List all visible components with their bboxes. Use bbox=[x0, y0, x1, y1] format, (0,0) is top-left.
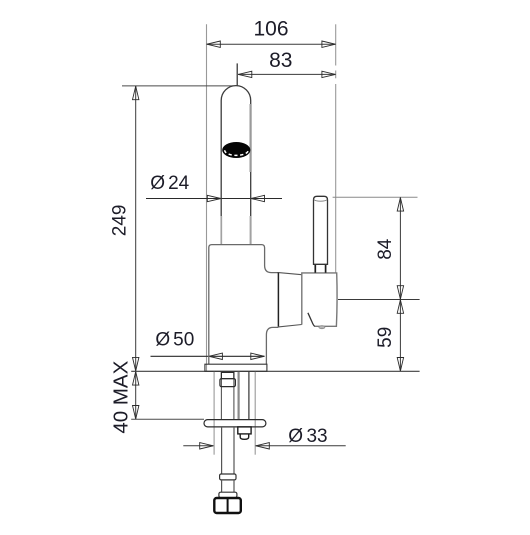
dim line O24 bbox=[146, 198, 282, 200]
arrow O24 left bbox=[207, 195, 221, 201]
arrow 84 bottom bbox=[397, 286, 403, 300]
svg-text:249: 249 bbox=[110, 205, 131, 237]
arrow 40MAX top (below deck, pointing up) bbox=[133, 372, 139, 386]
arrow O24 right bbox=[251, 195, 265, 201]
svg-text:40 MAX: 40 MAX bbox=[109, 360, 132, 433]
ext line cartridge centre (84/59 ref) bbox=[338, 299, 420, 301]
spout right edge shading bbox=[250, 104, 252, 172]
arrow O50 left bbox=[209, 353, 223, 359]
handle rod bbox=[314, 196, 328, 264]
arrow 59 top bbox=[397, 300, 403, 314]
svg-text:Ø50: Ø50 bbox=[155, 330, 194, 351]
extension line right (handle right edge) bbox=[335, 24, 337, 65]
spout lower edges shading bbox=[220, 216, 222, 244]
body main block bbox=[209, 245, 279, 365]
hose end ring bbox=[219, 492, 237, 498]
hose collar bbox=[220, 474, 236, 480]
handle rod cap line bbox=[314, 200, 327, 202]
spout tube outline bbox=[221, 86, 251, 245]
arrow 40MAX bottom (pointing down) bbox=[133, 406, 139, 420]
arrow 249 top bbox=[133, 86, 139, 100]
arrow 106 left bbox=[207, 41, 221, 47]
label 40 MAX bbox=[109, 360, 132, 433]
dim line 106 bbox=[207, 43, 336, 45]
svg-text:106: 106 bbox=[253, 17, 288, 40]
hose fitting nut bbox=[220, 379, 236, 387]
hose fitting block bbox=[221, 372, 234, 378]
extension line left (base plate left edge) bbox=[206, 24, 208, 371]
hose hex nut bbox=[214, 498, 241, 513]
svg-text:84: 84 bbox=[375, 238, 396, 260]
arrow O33 right bbox=[256, 443, 269, 449]
label 249 bbox=[110, 205, 131, 237]
dim line 84/59 vertical bbox=[399, 197, 401, 371]
arrow 83 right bbox=[322, 71, 336, 77]
arrow 249 bottom bbox=[133, 357, 139, 371]
dim line 83 bbox=[238, 73, 336, 75]
ext line spout top (249 top ref) bbox=[122, 85, 233, 87]
ext line handle top (84 top ref) bbox=[333, 196, 418, 198]
arrow 106 right bbox=[322, 41, 336, 47]
cartridge bottom dot bbox=[319, 326, 325, 329]
cartridge bottom lever hook bbox=[308, 313, 315, 327]
arrow O50 right bbox=[251, 353, 264, 359]
cartridge body bbox=[302, 273, 337, 326]
ext line washer top (40MAX bottom ref) bbox=[131, 418, 204, 420]
hose upper section bbox=[220, 372, 222, 420]
tick spout centre (83 ref) bbox=[236, 63, 238, 86]
svg-text:Ø24: Ø24 bbox=[150, 173, 189, 194]
cartridge ring left edge bbox=[277, 272, 279, 327]
dim line O33 bbox=[183, 445, 213, 447]
hose tube lower bbox=[221, 480, 223, 492]
label 59 bbox=[375, 327, 396, 348]
hose hex nut facet line bbox=[227, 499, 229, 513]
hose lower section bbox=[221, 427, 223, 474]
aerator rim highlight bbox=[225, 150, 249, 155]
svg-text:83: 83 bbox=[269, 49, 292, 72]
stud nut tip bbox=[240, 434, 249, 439]
handle neck bbox=[315, 265, 325, 273]
cartridge taper ring top/bottom bbox=[278, 273, 301, 275]
arrow 84 top bbox=[397, 198, 403, 212]
svg-text:59: 59 bbox=[375, 327, 396, 348]
arrow O33 left bbox=[200, 443, 214, 449]
mounting stud bbox=[238, 372, 240, 420]
dim line O50 bbox=[151, 355, 265, 357]
label 84 bbox=[375, 238, 396, 260]
svg-text:Ø33: Ø33 bbox=[288, 426, 327, 447]
aerator ellipse bbox=[222, 142, 250, 158]
arrow 59 bottom bbox=[397, 358, 403, 372]
arrow 83 left bbox=[238, 71, 252, 77]
stud nut bbox=[238, 427, 251, 434]
deck / counter line bbox=[131, 370, 419, 372]
washer bbox=[204, 420, 266, 427]
dim line 249 / 40MAX vertical bbox=[135, 86, 137, 419]
base plate bbox=[205, 364, 267, 371]
shank sleeve lines (O33) bbox=[213, 372, 215, 455]
